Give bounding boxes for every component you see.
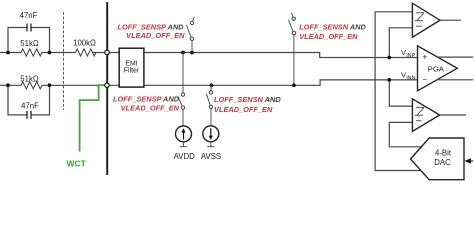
- resistor R2 51k on line N: [21, 82, 42, 89]
- svg-text:LOFF_SENSP AND: LOFF_SENSP AND: [113, 94, 180, 103]
- net: DAC output to comparator U3 lower input: [389, 122, 421, 146]
- switch S4 (lead-off current source N): [206, 85, 212, 125]
- DAC U4 (4-bit threshold DAC): [411, 138, 465, 180]
- switch S3 (lead-off current source P): [178, 93, 185, 126]
- label R3 100k: [73, 39, 96, 48]
- svg-text:LOFF_SENSN AND: LOFF_SENSN AND: [214, 95, 281, 104]
- switch S2 (lead-off sense N, top): [289, 13, 296, 35]
- wire: comparator U3 output: [440, 114, 466, 116]
- svg-text:−: −: [422, 75, 427, 84]
- comparator U3 (bottom): [412, 99, 439, 132]
- junction: R1/C1 right node: [48, 51, 52, 55]
- svg-text:AVDD: AVDD: [174, 152, 195, 161]
- resistor R1 51k on line P: [21, 49, 42, 56]
- label: red control text block 2 (top-right): [299, 23, 366, 41]
- svg-text:+: +: [423, 53, 428, 62]
- svg-text:51kΩ: 51kΩ: [20, 74, 39, 83]
- svg-text:VLEAD_OFF_EN: VLEAD_OFF_EN: [214, 105, 273, 114]
- capacitor C2 47nF branch loop: [8, 85, 50, 119]
- label WCT: [67, 158, 87, 168]
- junction: R1/C1 left node: [6, 51, 10, 55]
- svg-text:51kΩ: 51kΩ: [20, 39, 39, 48]
- svg-text:100kΩ: 100kΩ: [73, 39, 96, 48]
- current source I2 AVSS: [203, 126, 219, 147]
- label V_INN: [401, 71, 416, 82]
- svg-text:INN: INN: [406, 75, 415, 81]
- boundary: dashed separator line: [63, 12, 65, 110]
- label AVSS: [201, 152, 221, 161]
- label: red control text block 3 (bottom-left): [113, 94, 180, 112]
- net: DAC output line to comparator U2 (left tall vertical): [375, 12, 421, 171]
- junction: AVDD branch on line P: [181, 51, 185, 55]
- PGA amplifier U1: [418, 46, 458, 91]
- label R1 51k: [20, 39, 39, 48]
- switch S1 (lead-off sense P, top): [187, 17, 195, 53]
- svg-text:47nF: 47nF: [21, 101, 39, 110]
- svg-text:LOFF_SENSN AND: LOFF_SENSN AND: [299, 23, 366, 32]
- junction: S2 branch on line N: [292, 83, 296, 87]
- pin: input P (open circle): [105, 50, 109, 54]
- junction: R2/C2 left node: [6, 83, 10, 87]
- net: comparator U2 lower input tap from line P: [389, 28, 412, 58]
- device pin rail (vertical boundary line): [106, 2, 108, 175]
- svg-text:AVSS: AVSS: [201, 152, 221, 161]
- EMI filter block U5: [119, 48, 144, 87]
- label: red control text block 4 (bottom-middle): [214, 95, 281, 114]
- label C1 47nF: [20, 11, 38, 20]
- junction: tap on line N: [387, 78, 391, 82]
- wire: PGA output N: [438, 79, 474, 81]
- svg-text:EMI: EMI: [125, 61, 137, 68]
- svg-text:VLEAD_OFF_EN: VLEAD_OFF_EN: [299, 32, 358, 41]
- svg-text:PGA: PGA: [428, 64, 445, 73]
- DAC input arrow (right side): [465, 158, 474, 163]
- label C2 47nF: [21, 101, 39, 110]
- svg-text:VLEAD_OFF_EN: VLEAD_OFF_EN: [121, 104, 180, 113]
- wire: input line P (top) with breaks for resistors: [0, 53, 418, 58]
- comparator U2 (top): [412, 3, 440, 37]
- junction: R2/C2 right node: [48, 83, 52, 87]
- label AVDD: [174, 152, 195, 161]
- label: red control text block 1 (top-left): [118, 22, 186, 40]
- wire WCT (green): [80, 85, 105, 151]
- svg-text:INP: INP: [406, 53, 415, 59]
- junction: tap on line P: [387, 56, 391, 60]
- svg-text:Filter: Filter: [124, 68, 140, 75]
- svg-text:47nF: 47nF: [20, 11, 38, 20]
- wire: PGA output P: [437, 56, 473, 58]
- capacitor C1 47nF branch loop: [8, 24, 50, 53]
- current source I1 AVDD: [176, 126, 192, 147]
- wire: input line N (bottom) with break for resistor: [0, 80, 418, 85]
- resistor R3 100k on line P: [76, 49, 96, 56]
- svg-text:DAC: DAC: [434, 158, 451, 167]
- junction: AVSS branch on line N: [210, 83, 214, 87]
- svg-text:VLEAD_OFF_EN: VLEAD_OFF_EN: [126, 31, 185, 40]
- net: comparator U3 upper input tap from line N: [389, 80, 412, 106]
- wire: AVDD branch down from line P crossing line N: [182, 53, 184, 93]
- label V_INP: [401, 48, 416, 59]
- wire: comparator U2 output: [440, 19, 461, 21]
- pin: input N (open circle): [105, 83, 109, 87]
- svg-text:4-Bit: 4-Bit: [435, 149, 452, 158]
- label R2 51k: [20, 74, 39, 83]
- junction: switch S1 on line P: [190, 51, 194, 55]
- wire: switch S2 branch down to line N junction: [293, 35, 295, 86]
- svg-text:WCT: WCT: [67, 158, 87, 168]
